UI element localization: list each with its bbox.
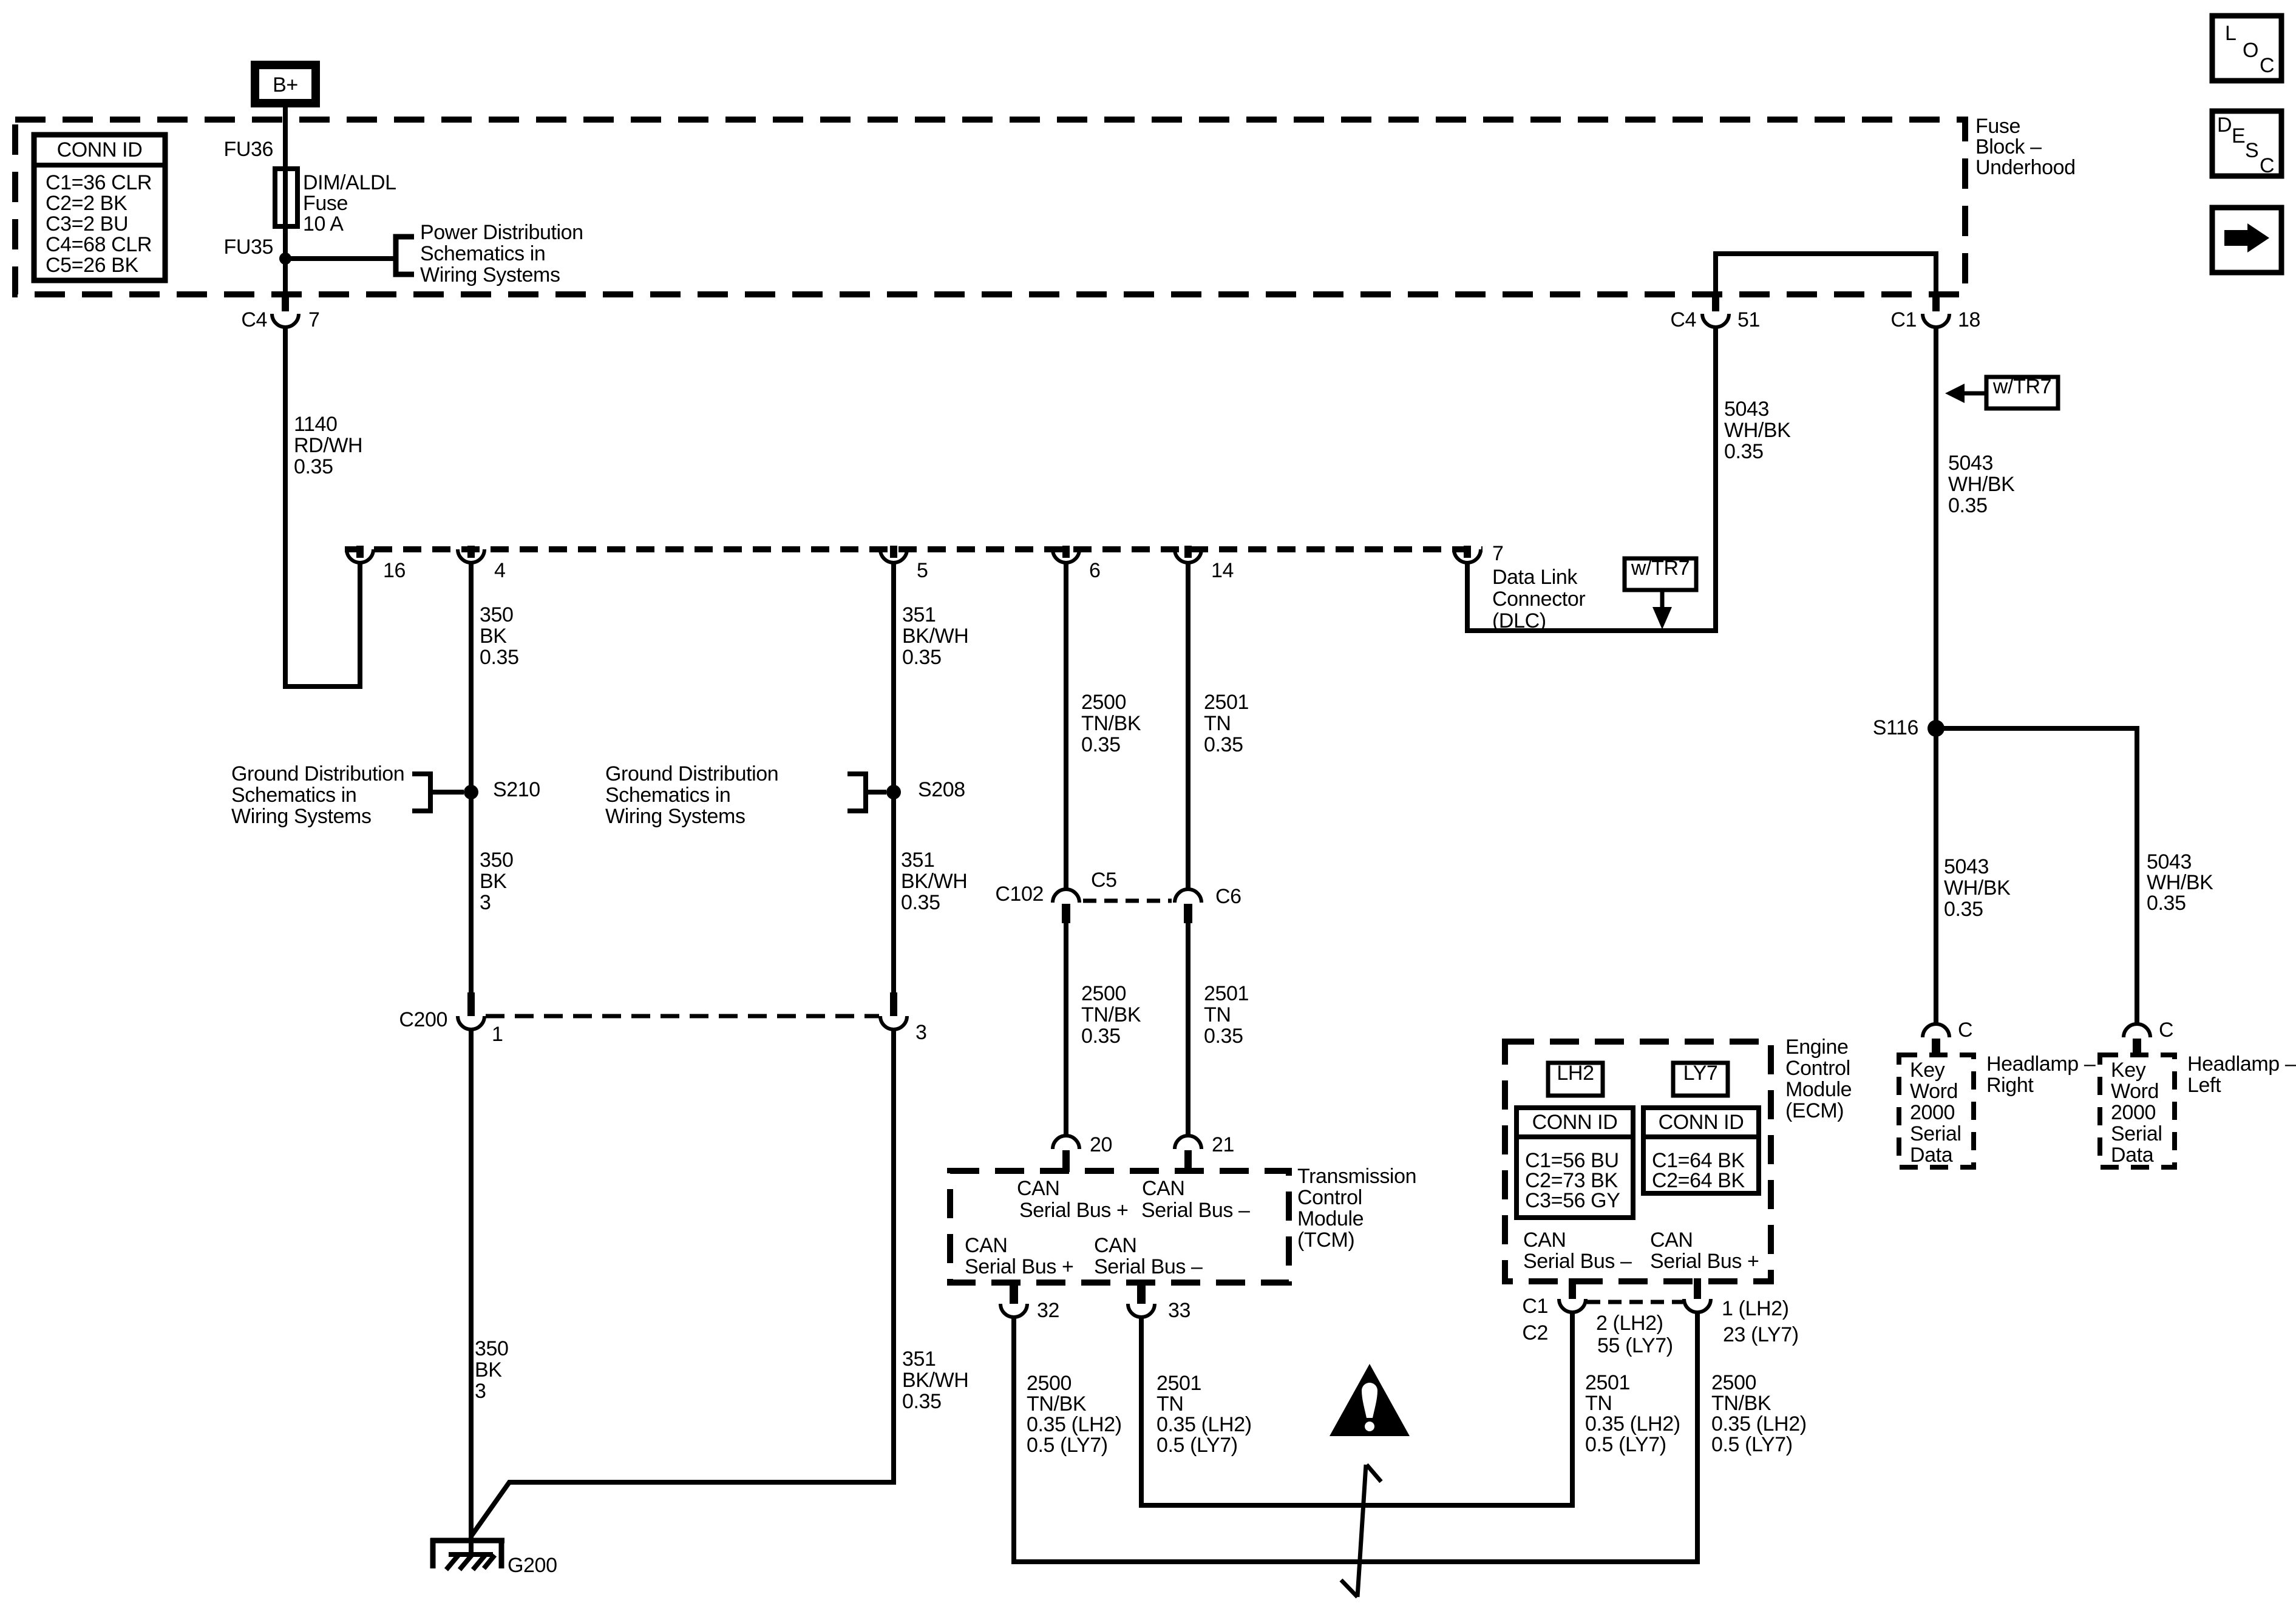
connector C102 pin C5 [1053,889,1079,923]
svg-text:CONN ID: CONN ID [1659,1111,1744,1134]
svg-text:Wiring Systems: Wiring Systems [231,805,372,828]
svg-text:TN/BK: TN/BK [1027,1392,1087,1415]
svg-text:Serial Bus +: Serial Bus + [1019,1199,1128,1222]
data link connector DLC dashed line [345,546,1483,552]
svg-text:0.35 (LH2): 0.35 (LH2) [1711,1412,1807,1436]
svg-text:RD/WH: RD/WH [294,434,362,457]
svg-text:S116: S116 [1873,716,1918,739]
svg-text:Fuse: Fuse [303,192,348,215]
svg-text:350: 350 [480,603,514,626]
connector C headlamp left [2124,1024,2150,1055]
svg-text:350: 350 [480,849,514,872]
svg-text:Schematics in: Schematics in [420,242,545,265]
svg-text:B+: B+ [273,73,298,97]
svg-text:WH/BK: WH/BK [1948,473,2015,496]
svg-text:3: 3 [480,891,491,914]
fuse DIM/ALDL 10A [275,169,297,226]
headlamp left Key Word 2000 Serial Data box [2100,1055,2175,1167]
svg-text:Data: Data [2111,1144,2154,1167]
svg-text:E: E [2232,124,2245,147]
svg-text:Serial Bus –: Serial Bus – [1094,1255,1203,1278]
svg-text:WH/BK: WH/BK [1724,419,1791,442]
svg-text:LH2: LH2 [1557,1062,1594,1085]
connector DLC pin 14 [1175,546,1201,563]
svg-text:Left: Left [2187,1074,2221,1097]
svg-text:14: 14 [1211,559,1234,582]
callout box w/TR7 with down arrow [1625,557,1696,629]
svg-text:C4=68 CLR: C4=68 CLR [46,233,152,256]
connector DLC pin 16 [347,546,373,563]
splice node S208 [886,785,901,799]
svg-text:TN/BK: TN/BK [1081,1003,1141,1026]
svg-text:5043: 5043 [1944,855,1989,878]
connector DLC pin 5 [880,546,907,563]
svg-text:(ECM): (ECM) [1785,1099,1844,1122]
svg-text:351: 351 [901,849,935,872]
connector ECM CAN+ pin (1 LH2 / 23 LY7) [1684,1278,1711,1312]
svg-text:C1: C1 [1522,1295,1548,1318]
svg-text:Serial: Serial [1910,1122,1961,1145]
svg-text:TN: TN [1585,1392,1612,1415]
svg-text:FU36: FU36 [223,138,273,161]
arrow nav box [2212,208,2281,273]
DESC nav box [2212,111,2281,177]
svg-text:0.35: 0.35 [480,646,519,669]
ECM internal labels CAN Serial Bus [1523,1229,1759,1273]
connector ECM CAN- pin (2 LH2 / 55 LY7) [1559,1278,1586,1312]
svg-text:0.35 (LH2): 0.35 (LH2) [1585,1412,1680,1436]
wire fuse block internal C4-51 to C1-18 [1716,254,1936,294]
svg-text:G200: G200 [508,1554,557,1577]
svg-text:CAN: CAN [1017,1177,1060,1200]
connector C4 pin 51 [1702,294,1729,327]
wire 2500 TN/BK from C102-C5 to TCM pin 20 [1064,923,1068,1136]
svg-text:2501: 2501 [1585,1371,1630,1394]
svg-text:2500: 2500 [1711,1371,1756,1394]
svg-text:WH/BK: WH/BK [2147,871,2213,894]
svg-text:Serial Bus –: Serial Bus – [1141,1199,1250,1222]
connector C200 pin 1 [458,992,484,1029]
svg-text:C1: C1 [1890,308,1917,331]
wire 5043 WH/BK from DLC pin7 to C4-51 [1467,327,1716,631]
svg-text:0.35: 0.35 [1081,1025,1121,1048]
svg-text:0.35: 0.35 [294,455,333,478]
connector DLC pin 6 [1053,546,1079,563]
svg-text:1: 1 [492,1023,503,1046]
svg-text:5043: 5043 [1948,452,1993,475]
svg-text:BK/WH: BK/WH [902,625,968,648]
svg-text:1 (LH2): 1 (LH2) [1722,1297,1789,1320]
svg-text:0.35: 0.35 [1081,733,1121,756]
svg-text:C1=36 CLR: C1=36 CLR [46,171,152,194]
svg-text:2500: 2500 [1081,982,1126,1005]
svg-text:Word: Word [2111,1080,2159,1103]
svg-text:51: 51 [1737,308,1760,331]
svg-text:0.35: 0.35 [1948,494,1988,517]
svg-text:CAN: CAN [1523,1229,1566,1252]
connector C102 pin C6 [1175,889,1201,923]
svg-text:Underhood: Underhood [1975,156,2076,179]
svg-text:16: 16 [383,559,406,582]
splice node S210 [464,785,478,799]
svg-text:TN: TN [1156,1392,1184,1415]
svg-text:Engine: Engine [1785,1036,1848,1059]
svg-text:0.35: 0.35 [2147,892,2186,915]
svg-text:0.5 (LY7): 0.5 (LY7) [1156,1434,1238,1457]
svg-text:21: 21 [1212,1133,1234,1156]
svg-text:2000: 2000 [2111,1101,2156,1124]
connector C200 pin 3 [880,992,907,1029]
svg-text:BK: BK [480,870,507,893]
svg-text:7: 7 [308,308,320,331]
svg-text:0.35: 0.35 [902,1390,942,1413]
svg-text:2501: 2501 [1204,691,1249,714]
svg-text:Wiring Systems: Wiring Systems [420,263,560,286]
connector C200 dashed line [486,1014,879,1019]
svg-text:BK: BK [480,625,507,648]
svg-text:Data Link: Data Link [1492,566,1578,589]
wire 350 BK 3 from C200-1 to G200 [469,1029,474,1554]
svg-text:D: D [2217,114,2232,137]
svg-text:Serial Bus +: Serial Bus + [965,1255,1073,1278]
svg-text:Key: Key [2111,1059,2146,1082]
svg-text:Serial: Serial [2111,1122,2162,1145]
svg-text:7: 7 [1492,542,1504,565]
svg-text:2500: 2500 [1081,691,1126,714]
svg-text:Control: Control [1785,1057,1850,1080]
wire 2501 TN from DLC pin 14 to C102-C6 [1186,563,1190,890]
bracket power distribution [396,237,414,274]
svg-text:C3=2 BU: C3=2 BU [46,212,128,236]
CONN ID table LH2 [1517,1108,1633,1218]
svg-text:0.35: 0.35 [1944,898,1983,921]
svg-text:0.5 (LY7): 0.5 (LY7) [1711,1433,1793,1456]
svg-text:Transmission: Transmission [1297,1165,1416,1188]
connector TCM pin 32 [1000,1280,1027,1317]
svg-text:32: 32 [1037,1299,1059,1322]
svg-text:C2=2 BK: C2=2 BK [46,192,127,215]
svg-text:5043: 5043 [2147,850,2192,873]
svg-text:Ground Distribution: Ground Distribution [231,762,404,785]
svg-text:20: 20 [1090,1133,1112,1156]
svg-text:Block –: Block – [1975,135,2042,158]
wire B+ feed through fuse [283,107,288,297]
svg-text:3: 3 [915,1021,927,1044]
svg-text:S208: S208 [918,778,965,801]
connector TCM pin 20 [1053,1136,1079,1172]
svg-text:Schematics in: Schematics in [605,784,730,807]
svg-text:23 (LY7): 23 (LY7) [1723,1323,1799,1346]
wire to power distribution reference [285,256,396,261]
svg-text:0.35: 0.35 [1204,1025,1243,1048]
svg-text:CONN ID: CONN ID [1532,1111,1618,1134]
LOC nav box [2212,16,2281,81]
svg-text:O: O [2243,39,2258,62]
svg-text:CAN: CAN [1142,1177,1185,1200]
svg-text:Fuse: Fuse [1975,115,2020,138]
svg-text:C4: C4 [241,308,267,331]
CONN ID table (fuse block) [34,135,165,280]
svg-text:Word: Word [1910,1080,1958,1103]
wire S116 branch to headlamp left [1936,728,2137,1024]
connector TCM pin 21 [1175,1136,1201,1172]
svg-text:FU35: FU35 [223,236,273,259]
svg-text:0.35 (LH2): 0.35 (LH2) [1156,1413,1252,1436]
LH2 box [1548,1062,1603,1096]
svg-text:350: 350 [475,1337,509,1360]
connector TCM pin 33 [1128,1280,1155,1317]
svg-text:6: 6 [1089,559,1101,582]
svg-text:C102: C102 [995,883,1044,906]
svg-text:C6: C6 [1215,885,1241,908]
svg-text:Key: Key [1910,1059,1945,1082]
svg-text:1140: 1140 [294,413,338,436]
svg-text:Headlamp –: Headlamp – [2187,1053,2296,1076]
svg-text:0.35: 0.35 [901,891,940,914]
svg-text:C5=26 BK: C5=26 BK [46,254,138,277]
bracket ground distribution S210 [412,774,430,811]
transmission control module TCM dashed box [950,1171,1289,1283]
svg-text:0.35: 0.35 [1204,733,1243,756]
svg-text:2501: 2501 [1204,982,1249,1005]
wire 2501 TN from TCM-33 to ECM CAN- [1141,1312,1572,1505]
node FU35 junction [279,253,291,265]
svg-text:2 (LH2): 2 (LH2) [1596,1312,1663,1335]
svg-text:Ground Distribution: Ground Distribution [605,762,778,785]
wire 2500 TN/BK from TCM-32 to ECM CAN+ [1014,1312,1697,1562]
svg-text:C2: C2 [1522,1321,1548,1344]
LY7 box [1673,1062,1728,1096]
svg-text:C5: C5 [1091,869,1117,892]
svg-text:S: S [2245,139,2258,162]
svg-text:CAN: CAN [1094,1234,1137,1257]
svg-text:C: C [2159,1019,2173,1042]
svg-text:351: 351 [902,1347,936,1371]
svg-text:WH/BK: WH/BK [1944,876,2011,900]
svg-text:(TCM): (TCM) [1297,1229,1354,1252]
svg-text:351: 351 [902,603,936,626]
svg-text:Headlamp –: Headlamp – [1986,1053,2096,1076]
svg-text:0.35 (LH2): 0.35 (LH2) [1027,1413,1122,1436]
svg-text:Power Distribution: Power Distribution [420,221,583,244]
svg-text:w/TR7: w/TR7 [1631,557,1690,580]
svg-text:C: C [1958,1019,1972,1042]
connector DLC pin 7 [1454,546,1481,563]
svg-text:S210: S210 [493,778,540,801]
svg-text:10 A: 10 A [303,212,344,236]
connector DLC pin 4 [458,546,484,563]
svg-text:L: L [2225,22,2237,45]
svg-text:0.35: 0.35 [1724,440,1764,463]
svg-text:C4: C4 [1670,308,1696,331]
svg-text:Serial Bus –: Serial Bus – [1523,1250,1632,1273]
svg-text:LY7: LY7 [1683,1062,1718,1085]
splice node S116 [1927,720,1944,737]
svg-text:0.5 (LY7): 0.5 (LY7) [1027,1434,1108,1457]
svg-text:Data: Data [1910,1144,1953,1167]
svg-text:DIM/ALDL: DIM/ALDL [303,171,396,194]
svg-text:Module: Module [1785,1078,1852,1101]
svg-text:Schematics in: Schematics in [231,784,356,807]
connector C1 pin 18 [1923,294,1949,327]
wire 351 BK/WH from C200-3 to G200 [471,1029,894,1536]
svg-text:BK/WH: BK/WH [902,1369,968,1392]
CONN ID table LY7 [1643,1108,1759,1193]
svg-text:2500: 2500 [1027,1372,1072,1395]
wire 2500 TN/BK from DLC pin 6 to C102-C5 [1064,563,1068,890]
wire 1140 RD/WH 0.35 from C4-7 to DLC pin 16 [285,327,360,686]
svg-text:3: 3 [475,1380,486,1403]
svg-text:Wiring Systems: Wiring Systems [605,805,746,828]
svg-text:5: 5 [917,559,928,582]
svg-text:18: 18 [1958,308,1980,331]
svg-text:4: 4 [494,559,506,582]
svg-text:C: C [2260,154,2274,177]
svg-text:C3=56 GY: C3=56 GY [1525,1189,1620,1212]
svg-text:TN/BK: TN/BK [1711,1392,1771,1415]
svg-text:CONN ID: CONN ID [57,138,143,161]
svg-text:w/TR7: w/TR7 [1992,375,2051,398]
svg-text:CAN: CAN [965,1234,1008,1257]
svg-text:C: C [2260,54,2274,77]
fuse block - underhood dashed box [15,120,1965,294]
wire 5043 WH/BK from C1-18 to S116 and headlamp right [1934,327,1938,1024]
connector C headlamp right [1923,1024,1949,1055]
svg-text:C2=64 BK: C2=64 BK [1652,1169,1745,1192]
svg-text:BK: BK [475,1358,502,1381]
svg-text:Serial Bus +: Serial Bus + [1650,1250,1759,1273]
crossing-wires indicator (lightning) [1341,1465,1381,1597]
wire 351 BK/WH from DLC pin 5 to C200 [891,563,896,992]
svg-text:Connector: Connector [1492,588,1585,611]
connector ECM C1/C2 dashed line [1587,1300,1683,1304]
svg-text:2501: 2501 [1156,1372,1201,1395]
svg-text:Control: Control [1297,1186,1362,1209]
wire 350 BK from DLC pin 4 to C200 [469,563,474,992]
svg-text:CAN: CAN [1650,1229,1693,1252]
svg-text:0.35: 0.35 [902,646,942,669]
svg-text:TN: TN [1204,1003,1231,1026]
connector C4 pin 7 (fuse block bottom) [272,294,299,327]
svg-text:5043: 5043 [1724,398,1769,421]
svg-text:TN/BK: TN/BK [1081,712,1141,735]
callout box w/TR7 with left arrow [1945,375,2058,408]
engine control module ECM dashed box [1505,1042,1771,1281]
svg-text:2000: 2000 [1910,1101,1955,1124]
TCM internal labels CAN Serial Bus [965,1177,1250,1278]
wire 2501 TN from C102-C6 to TCM pin 21 [1186,923,1190,1136]
svg-text:C200: C200 [399,1008,447,1031]
warning triangle [1330,1364,1410,1436]
svg-text:TN: TN [1204,712,1231,735]
svg-text:55 (LY7): 55 (LY7) [1597,1334,1673,1357]
svg-text:0.5 (LY7): 0.5 (LY7) [1585,1433,1666,1456]
svg-text:33: 33 [1168,1299,1190,1322]
B+ battery terminal box [255,65,316,103]
svg-text:Module: Module [1297,1207,1364,1230]
headlamp right Key Word 2000 Serial Data box [1899,1055,1974,1167]
svg-text:BK/WH: BK/WH [901,870,967,893]
bracket ground distribution S208 [847,774,866,811]
svg-text:Right: Right [1986,1074,2034,1097]
ground G200 [430,1538,504,1570]
connector C102 dashed line C5-C6 [1083,899,1172,903]
